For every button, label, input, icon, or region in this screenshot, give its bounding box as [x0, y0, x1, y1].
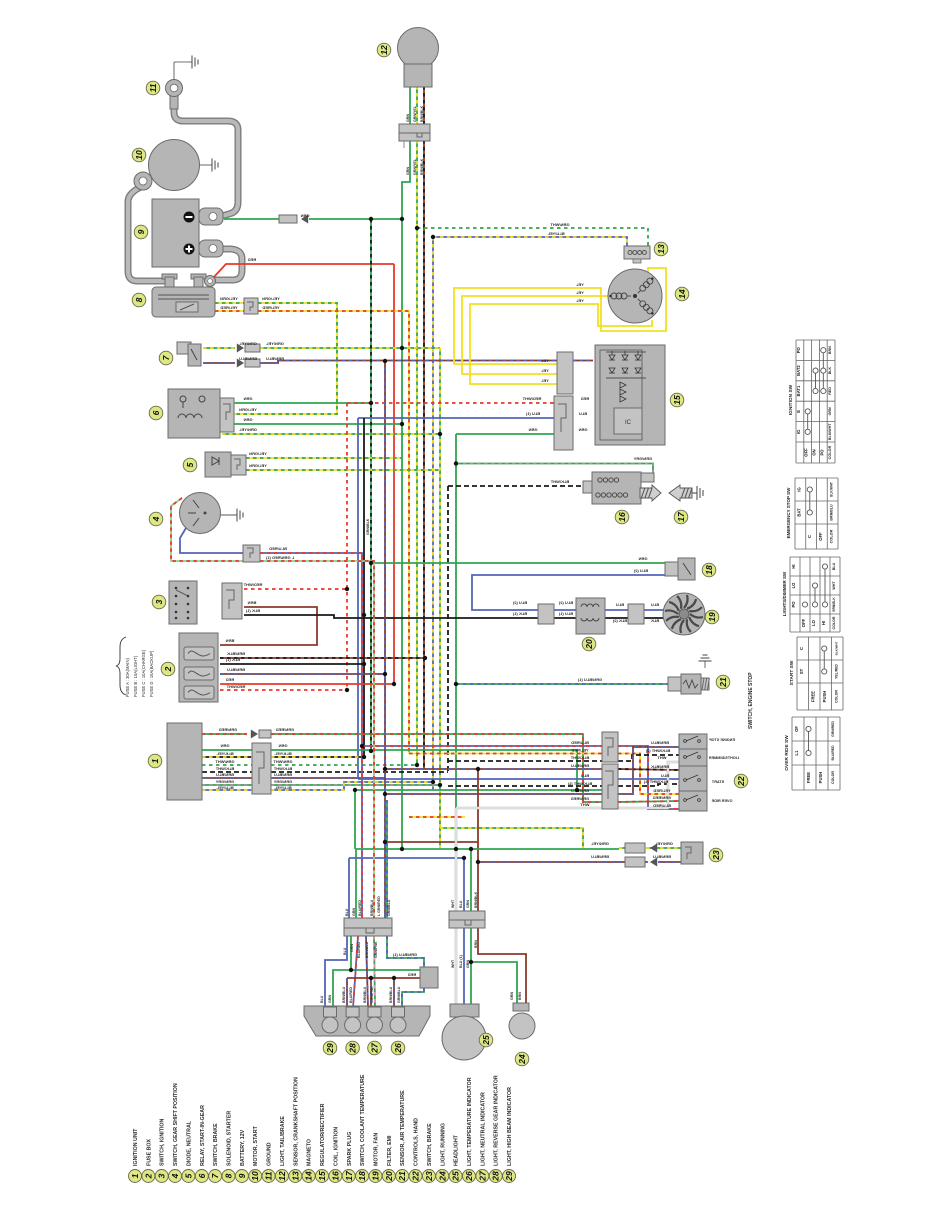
svg-text:LO: LO: [791, 582, 796, 589]
svg-text:YEL: YEL: [541, 378, 549, 383]
svg-text:BLU: BLU: [661, 773, 669, 778]
svg-text:28: 28: [491, 1171, 501, 1182]
svg-text:20: 20: [584, 639, 594, 650]
svg-text:25: 25: [481, 1035, 491, 1046]
svg-text:BLK (2): BLK (2): [612, 618, 627, 623]
svg-text:RELAY, START-IN-GEAR: RELAY, START-IN-GEAR: [200, 1105, 206, 1166]
svg-text:EMERGENCY STOP SW: EMERGENCY STOP SW: [786, 487, 791, 539]
svg-text:GRN: GRN: [278, 743, 287, 748]
svg-text:SWITCH, ENGINE STOP: SWITCH, ENGINE STOP: [748, 672, 754, 729]
svg-text:BRN: BRN: [828, 346, 832, 354]
svg-text:IGNITION SW: IGNITION SW: [788, 384, 794, 415]
svg-text:FREE: FREE: [806, 772, 811, 783]
svg-text:GRN: GRN: [638, 556, 647, 561]
svg-text:SWITCH, BRAKE: SWITCH, BRAKE: [427, 1123, 433, 1166]
svg-text:CONTROLS, HAND: CONTROLS, HAND: [414, 1118, 420, 1166]
svg-text:GROUND: GROUND: [267, 1142, 273, 1166]
svg-text:SWITCH, BRAKE: SWITCH, BRAKE: [213, 1123, 219, 1166]
svg-text:4: 4: [151, 516, 161, 522]
svg-text:5: 5: [185, 462, 195, 467]
svg-text:BLK/WHT: BLK/WHT: [828, 423, 832, 440]
svg-text:12: 12: [379, 45, 389, 55]
svg-text:21: 21: [397, 1171, 407, 1182]
svg-text:19: 19: [707, 612, 717, 622]
svg-text:GRN: GRN: [406, 167, 410, 175]
svg-text:GRN: GRN: [243, 396, 252, 401]
svg-text:SENSOR, AIR TEMPERATURE: SENSOR, AIR TEMPERATURE: [400, 1090, 406, 1166]
svg-text:START SW: START SW: [789, 660, 795, 685]
svg-text:GRN/RED: GRN/RED: [219, 727, 238, 732]
svg-text:PUSH: PUSH: [818, 772, 823, 784]
svg-text:OF: OF: [794, 726, 799, 732]
svg-text:MOTOR, START: MOTOR, START: [253, 1125, 259, 1166]
svg-text:GRN: GRN: [406, 114, 410, 122]
svg-text:YEL: YEL: [541, 358, 549, 363]
svg-text:BATTERY, 12V: BATTERY, 12V: [240, 1129, 246, 1166]
svg-text:COIL, IGNITION: COIL, IGNITION: [333, 1127, 339, 1166]
svg-text:4: 4: [170, 1173, 180, 1179]
svg-text:1: 1: [150, 758, 160, 763]
svg-text:BLK/WHT (1): BLK/WHT (1): [643, 779, 668, 784]
svg-text:BLU/RED: BLU/RED: [358, 900, 362, 916]
svg-text:E: E: [796, 410, 801, 413]
svg-text:19: 19: [370, 1171, 380, 1181]
svg-text:FUSE BOX: FUSE BOX: [146, 1138, 152, 1166]
svg-text:13: 13: [656, 244, 666, 254]
svg-text:BRN/BLU: BRN/BLU: [266, 356, 284, 361]
svg-text:YEL/RED: YEL/RED: [220, 305, 237, 310]
svg-text:HI: HI: [821, 621, 826, 625]
svg-text:17: 17: [344, 1170, 354, 1181]
svg-text:GRN: GRN: [352, 908, 356, 916]
svg-text:START: START: [711, 780, 724, 784]
svg-text:C: C: [799, 647, 804, 650]
svg-text:GRN/RED: GRN/RED: [571, 796, 590, 801]
svg-text:GRN/YEL: GRN/YEL: [413, 158, 417, 175]
svg-text:HEADLIGHT: HEADLIGHT: [454, 1134, 460, 1166]
svg-text:RED: RED: [408, 972, 417, 977]
svg-text:BLK/WHT: BLK/WHT: [550, 479, 569, 484]
svg-text:COLOR: COLOR: [834, 690, 838, 703]
svg-text:5: 5: [183, 1173, 193, 1178]
svg-text:2: 2: [143, 1173, 153, 1179]
svg-text:LIGHTS/DIMMER: LIGHTS/DIMMER: [709, 756, 740, 760]
svg-text:9: 9: [237, 1173, 247, 1178]
svg-text:24: 24: [517, 1054, 527, 1065]
svg-text:COLOR: COLOR: [832, 616, 836, 629]
svg-text:RED: RED: [581, 396, 590, 401]
svg-text:OVER RIDE SW: OVER RIDE SW: [784, 735, 790, 771]
svg-text:BRN/BLU: BRN/BLU: [830, 504, 834, 521]
svg-text:3: 3: [154, 599, 164, 604]
svg-text:27: 27: [477, 1170, 487, 1182]
svg-text:BRN/BLU: BRN/BLU: [651, 740, 669, 745]
svg-text:FILTER, EMI: FILTER, EMI: [387, 1135, 393, 1166]
svg-text:GRN/RED: GRN/RED: [831, 721, 835, 737]
svg-text:BLK/WHT (1): BLK/WHT (1): [567, 781, 592, 786]
svg-text:SWITCH, COOLANT TEMPERATURE: SWITCH, COOLANT TEMPERATURE: [360, 1074, 366, 1166]
svg-text:C: C: [807, 535, 812, 538]
svg-text:YEL/RED: YEL/RED: [571, 748, 588, 753]
svg-text:GRN: GRN: [510, 992, 514, 1000]
svg-text:GRN/PNK: GRN/PNK: [370, 986, 374, 1003]
svg-text:YEL: YEL: [541, 368, 549, 373]
svg-text:15: 15: [672, 395, 682, 405]
svg-text:BLK/YEL: BLK/YEL: [274, 751, 292, 756]
svg-text:BLK/YEL: BLK/YEL: [216, 751, 234, 756]
svg-text:BLU (1): BLU (1): [525, 411, 540, 416]
svg-text:PO: PO: [791, 601, 796, 608]
svg-text:IGNITION UNIT: IGNITION UNIT: [133, 1128, 139, 1166]
svg-text:BRN/BLU: BRN/BLU: [363, 986, 367, 1003]
svg-text:SPARK PLUG: SPARK PLUG: [347, 1132, 353, 1166]
svg-text:GRN: GRN: [578, 427, 587, 432]
svg-text:SENSOR, CRANKSHAFT POSITION: SENSOR, CRANKSHAFT POSITION: [293, 1077, 299, 1166]
svg-text:BRN: BRN: [226, 638, 235, 643]
svg-text:RED/WHT: RED/WHT: [226, 684, 245, 689]
svg-text:RED: RED: [248, 257, 257, 262]
svg-text:16: 16: [330, 1171, 340, 1181]
svg-text:28: 28: [348, 1043, 358, 1054]
svg-text:GRN: GRN: [528, 427, 537, 432]
svg-text:FREE: FREE: [810, 691, 815, 702]
svg-text:GRN/BLU: GRN/BLU: [397, 986, 401, 1003]
svg-text:14: 14: [304, 1171, 314, 1181]
svg-text:GRN: GRN: [243, 417, 252, 422]
svg-text:IC: IC: [625, 420, 632, 426]
svg-text:LO: LO: [811, 619, 816, 626]
svg-text:10: 10: [134, 150, 144, 160]
svg-text:BLU/RED: BLU/RED: [831, 745, 835, 761]
svg-text:RED: RED: [226, 677, 235, 682]
svg-text:BLU: BLU: [579, 411, 587, 416]
svg-text:BLU/RED: BLU/RED: [653, 803, 671, 808]
svg-text:FUSE B : 15A(LIGHT): FUSE B : 15A(LIGHT): [133, 655, 138, 697]
svg-text:PUSH: PUSH: [822, 691, 827, 703]
svg-text:BLU: BLU: [459, 900, 463, 908]
svg-text:YEL/GRN: YEL/GRN: [249, 463, 267, 468]
svg-text:GRN/BLU (1): GRN/BLU (1): [577, 677, 602, 682]
svg-text:BLU/YEL: BLU/YEL: [547, 231, 565, 236]
svg-text:YEL: YEL: [576, 290, 584, 295]
svg-text:BRN/BLU: BRN/BLU: [227, 667, 245, 672]
svg-text:GRN: GRN: [300, 213, 309, 218]
svg-text:RED/WHT: RED/WHT: [243, 582, 262, 587]
svg-text:16: 16: [617, 512, 627, 522]
svg-text:SWITCH, GEAR SHIFT POSITION: SWITCH, GEAR SHIFT POSITION: [173, 1083, 179, 1166]
svg-text:BRN/BLU: BRN/BLU: [571, 788, 589, 793]
svg-text:11: 11: [264, 1171, 274, 1180]
svg-text:22: 22: [411, 1171, 421, 1182]
svg-text:REGULATOR/RECTIFIER: REGULATOR/RECTIFIER: [320, 1103, 326, 1166]
svg-text:BLK/WHT (2): BLK/WHT (2): [645, 748, 670, 753]
svg-text:LIGHT, RUNNING: LIGHT, RUNNING: [440, 1123, 446, 1166]
svg-text:GRN/RED: GRN/RED: [653, 795, 672, 800]
svg-text:13: 13: [290, 1171, 300, 1181]
svg-text:BRN/BLU: BRN/BLU: [365, 941, 369, 958]
svg-text:BRN/BLU: BRN/BLU: [216, 772, 234, 777]
svg-text:COLOR: COLOR: [831, 771, 835, 784]
svg-text:BLK (1): BLK (1): [245, 608, 260, 613]
svg-text:18: 18: [704, 565, 714, 575]
svg-text:BAT2: BAT2: [796, 365, 801, 376]
svg-text:BLK/WHT: BLK/WHT: [570, 755, 589, 760]
svg-text:GRN/WHT: GRN/WHT: [550, 222, 570, 227]
svg-text:BRN/BLU: BRN/BLU: [342, 986, 346, 1003]
svg-text:BRN: BRN: [518, 992, 522, 1000]
svg-text:29: 29: [504, 1171, 514, 1182]
svg-text:GRN: GRN: [220, 743, 229, 748]
svg-text:MAGNETO: MAGNETO: [307, 1139, 313, 1166]
svg-text:GRN/WHT: GRN/WHT: [215, 759, 235, 764]
svg-text:26: 26: [464, 1171, 474, 1182]
svg-text:23: 23: [424, 1171, 434, 1182]
svg-text:LIGHT, NEUTRAL INDICATOR: LIGHT, NEUTRAL INDICATOR: [480, 1092, 486, 1166]
svg-text:DIODE, NEUTRAL: DIODE, NEUTRAL: [186, 1120, 192, 1166]
svg-text:BLU (2): BLU (2): [633, 568, 648, 573]
svg-text:18: 18: [357, 1171, 367, 1181]
svg-text:BLU: BLU: [651, 602, 659, 607]
svg-text:BLK/WHT: BLK/WHT: [834, 641, 838, 655]
svg-text:ON: ON: [812, 449, 817, 455]
svg-text:27: 27: [370, 1042, 380, 1054]
svg-text:YEL: YEL: [576, 282, 584, 287]
svg-text:9: 9: [136, 229, 146, 234]
svg-text:BLU/YEL: BLU/YEL: [274, 785, 292, 790]
svg-text:WHT: WHT: [451, 899, 455, 908]
svg-text:24: 24: [437, 1171, 447, 1182]
svg-text:BRN/BLU: BRN/BLU: [370, 899, 374, 916]
svg-text:BLU: BLU: [343, 947, 347, 955]
svg-text:HI: HI: [791, 564, 796, 568]
svg-text:SOLENOID, STARTER: SOLENOID, STARTER: [227, 1111, 233, 1166]
svg-text:OFF: OFF: [801, 618, 806, 627]
svg-text:10: 10: [250, 1171, 260, 1181]
svg-text:PO: PO: [819, 449, 824, 456]
svg-text:LIGHT, HIGH BEAM INDICATOR: LIGHT, HIGH BEAM INDICATOR: [507, 1087, 513, 1166]
svg-text:26: 26: [393, 1043, 403, 1054]
svg-text:GRN/PNK: GRN/PNK: [374, 941, 378, 958]
svg-text:YEL/RED: YEL/RED: [262, 305, 279, 310]
svg-text:LIGHT, TAIL/BRAKE: LIGHT, TAIL/BRAKE: [280, 1116, 286, 1166]
svg-text:L1: L1: [794, 750, 799, 756]
svg-text:22: 22: [736, 776, 746, 787]
svg-text:IG: IG: [797, 487, 802, 491]
svg-text:WHT: WHT: [657, 755, 667, 760]
svg-text:YEL/RED: YEL/RED: [653, 788, 670, 793]
svg-text:BLK: BLK: [828, 367, 832, 375]
svg-text:WHT: WHT: [451, 959, 455, 968]
svg-text:GRN/BLU: GRN/BLU: [387, 899, 391, 916]
svg-text:GRN/YEL: GRN/YEL: [591, 841, 609, 846]
svg-text:BLU (1): BLU (1): [459, 954, 463, 968]
svg-text:FUSE C : 10A(CHARGE): FUSE C : 10A(CHARGE): [141, 649, 146, 697]
svg-text:GRN/GRY: GRN/GRY: [633, 456, 652, 461]
svg-text:BLU: BLU: [616, 602, 624, 607]
svg-text:GRN/GRY: GRN/GRY: [273, 779, 292, 784]
svg-text:LIGHT, TEMPERATURE INDICATOR: LIGHT, TEMPERATURE INDICATOR: [467, 1077, 473, 1166]
svg-text:GRN: GRN: [466, 900, 470, 908]
svg-text:ST: ST: [799, 668, 804, 674]
svg-text:WHT: WHT: [580, 802, 590, 807]
svg-text:1: 1: [130, 1173, 140, 1178]
svg-text:YEL/GRN: YEL/GRN: [239, 407, 257, 412]
svg-text:BRN/BLK: BRN/BLK: [420, 158, 424, 175]
svg-text:FUSE A : 30A(MAIN): FUSE A : 30A(MAIN): [125, 658, 130, 697]
svg-text:BLU/YEL: BLU/YEL: [216, 785, 234, 790]
svg-text:8: 8: [134, 297, 144, 302]
svg-text:LIGHTS/DIMMER SW: LIGHTS/DIMMER SW: [782, 571, 787, 616]
svg-text:BRN/BLU: BRN/BLU: [239, 356, 257, 361]
svg-text:OFF: OFF: [804, 448, 809, 457]
svg-text:GRN/YEL: GRN/YEL: [239, 427, 257, 432]
svg-text:BRN/BLU: BRN/BLU: [591, 854, 609, 859]
svg-text:BRN/BLK: BRN/BLK: [227, 651, 245, 656]
svg-text:BRN/BLK: BRN/BLK: [832, 597, 836, 612]
svg-text:BLK (1): BLK (1): [225, 657, 240, 662]
svg-text:OVER RIDE: OVER RIDE: [711, 799, 732, 803]
svg-text:BLU: BLU: [345, 908, 349, 916]
svg-text:YEL/GRN: YEL/GRN: [220, 296, 238, 301]
svg-text:GRN/YEL: GRN/YEL: [239, 341, 257, 346]
svg-text:BLU/RED: BLU/RED: [571, 740, 589, 745]
svg-text:OFF: OFF: [818, 532, 823, 541]
svg-text:BLK/WHT: BLK/WHT: [273, 766, 292, 771]
svg-text:BLU: BLU: [832, 562, 836, 570]
svg-text:25: 25: [451, 1171, 461, 1182]
svg-text:BLK/WHT: BLK/WHT: [830, 482, 834, 497]
svg-text:MOTOR, FAN: MOTOR, FAN: [373, 1133, 379, 1166]
svg-text:RED: RED: [828, 387, 832, 395]
svg-text:2: 2: [163, 666, 173, 672]
svg-text:21: 21: [718, 677, 728, 688]
svg-text:SWITCH, IGNITION: SWITCH, IGNITION: [160, 1118, 166, 1166]
svg-text:11: 11: [148, 83, 158, 92]
svg-text:BLK (1): BLK (1): [512, 611, 527, 616]
svg-text:GRN/RED: GRN/RED: [276, 727, 295, 732]
svg-text:BLK/WHT: BLK/WHT: [215, 766, 234, 771]
svg-text:6: 6: [197, 1173, 207, 1178]
svg-text:GRN: GRN: [828, 407, 832, 415]
svg-text:BLU: BLU: [320, 995, 324, 1003]
svg-text:BRN/BLU: BRN/BLU: [389, 986, 393, 1003]
svg-text:12: 12: [277, 1171, 287, 1181]
svg-text:BRN/BLK: BRN/BLK: [651, 764, 669, 769]
svg-text:GRN/BLU (1): GRN/BLU (1): [392, 952, 417, 957]
svg-text:GRN/WHT: GRN/WHT: [273, 759, 293, 764]
svg-text:BLK: BLK: [651, 618, 659, 623]
svg-text:BLU/RED: BLU/RED: [269, 546, 287, 551]
svg-text:L GRN/RED (1): L GRN/RED (1): [265, 555, 294, 560]
svg-text:GRN/YEL: GRN/YEL: [413, 105, 417, 122]
svg-text:COLOR: COLOR: [828, 445, 832, 459]
svg-text:BLU (1): BLU (1): [558, 611, 573, 616]
svg-text:GRN/GRY: GRN/GRY: [215, 779, 234, 784]
svg-text:RED/WHT: RED/WHT: [522, 396, 541, 401]
svg-text:BRN/BLU: BRN/BLU: [274, 772, 292, 777]
svg-text:YEL/GRN: YEL/GRN: [249, 451, 267, 456]
svg-text:YEL: YEL: [576, 298, 584, 303]
svg-text:BLU: BLU: [581, 773, 589, 778]
svg-text:15: 15: [317, 1171, 327, 1181]
svg-text:29: 29: [325, 1043, 335, 1054]
svg-text:BRN/BLU: BRN/BLU: [571, 763, 589, 768]
svg-text:LIGHT, REVERSE GEAR INDICATOR: LIGHT, REVERSE GEAR INDICATOR: [494, 1075, 500, 1166]
svg-text:FUSE D : 15A(BACKUP): FUSE D : 15A(BACKUP): [149, 650, 154, 697]
svg-text:BRN: BRN: [474, 940, 478, 948]
svg-text:3: 3: [157, 1173, 167, 1178]
svg-text:14: 14: [677, 289, 687, 299]
svg-text:YEL/GRN: YEL/GRN: [262, 296, 280, 301]
svg-text:BRN/BLK: BRN/BLK: [474, 891, 478, 908]
svg-text:BRN/BLU: BRN/BLU: [653, 854, 671, 859]
svg-text:BLU/RED: BLU/RED: [349, 987, 353, 1003]
svg-text:BLU (2): BLU (2): [512, 600, 527, 605]
svg-text:17: 17: [676, 511, 686, 522]
svg-text:BRN: BRN: [248, 600, 257, 605]
svg-text:GRN/BLK: GRN/BLK: [366, 518, 370, 535]
svg-text:BRN/BLK: BRN/BLK: [420, 105, 424, 122]
svg-text:COLOR: COLOR: [830, 529, 834, 543]
svg-text:GRN/YEL: GRN/YEL: [266, 341, 284, 346]
svg-text:L GRN/RED: L GRN/RED: [377, 896, 381, 916]
svg-text:BLU/RED: BLU/RED: [357, 942, 361, 958]
svg-text:YEL/RED: YEL/RED: [834, 664, 838, 679]
svg-text:BAT: BAT: [797, 508, 802, 517]
svg-text:ENGINE STOP: ENGINE STOP: [709, 738, 735, 742]
svg-text:6: 6: [151, 410, 161, 415]
svg-text:8: 8: [224, 1173, 234, 1178]
svg-text:20: 20: [384, 1171, 394, 1182]
svg-text:PO: PO: [796, 346, 801, 353]
svg-text:GRN/YEL: GRN/YEL: [655, 841, 673, 846]
svg-text:WHT: WHT: [832, 581, 836, 590]
svg-text:IG: IG: [796, 430, 801, 434]
svg-text:23: 23: [711, 850, 721, 861]
svg-text:BAT1: BAT1: [796, 385, 801, 396]
svg-text:BLU (2): BLU (2): [558, 600, 573, 605]
svg-text:GRN: GRN: [328, 995, 332, 1003]
svg-text:GRN: GRN: [350, 944, 354, 952]
